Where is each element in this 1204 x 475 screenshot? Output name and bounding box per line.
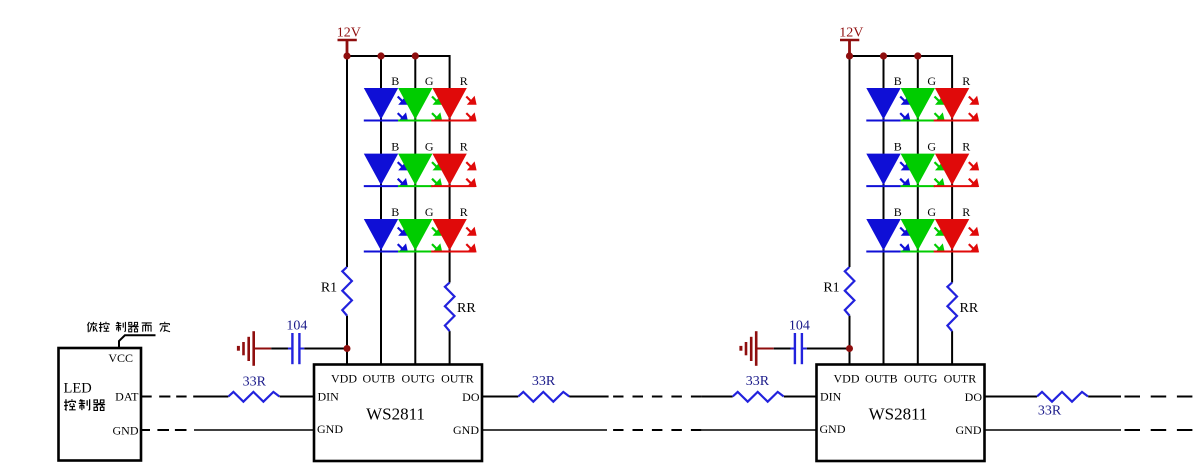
- resistor 33R (controller-U1): [228, 392, 279, 402]
- wire: R column block1 (with bend from rail): [449, 55, 451, 365]
- wire: GND solid to U2: [701, 429, 816, 431]
- svg-text:RR: RR: [960, 301, 979, 316]
- svg-text:R: R: [962, 74, 970, 88]
- svg-text:DIN: DIN: [820, 390, 842, 404]
- svg-text:R: R: [962, 139, 970, 153]
- wire: DAT dash 2: [176, 396, 186, 398]
- svg-text:VDD: VDD: [331, 371, 357, 385]
- wire: DAT solid to resistor: [193, 396, 228, 398]
- junction dot G rail block2: [914, 52, 921, 59]
- LED D16 blue row3 block2: [866, 219, 910, 252]
- resistor 33R (U1-U2): [518, 392, 569, 402]
- svg-text:OUTB: OUTB: [865, 371, 898, 385]
- svg-text:OUTB: OUTB: [362, 371, 395, 385]
- LED D18 red row3 block2: [934, 219, 979, 252]
- ground symbol block2: [741, 331, 756, 366]
- wire: B column block1: [380, 56, 382, 365]
- svg-text:GND: GND: [317, 422, 343, 436]
- svg-text:VCC: VCC: [108, 351, 133, 365]
- svg-text:OUTG: OUTG: [402, 371, 436, 385]
- wire: DAT dashes U1-U2: [613, 396, 701, 398]
- svg-text:G: G: [927, 205, 936, 219]
- wire: controller GND stub solid: [141, 429, 151, 431]
- wire: R column block2 (with bend from rail): [951, 55, 953, 365]
- svg-text:OUTR: OUTR: [441, 371, 474, 385]
- wire: VDD column block2: [849, 56, 851, 365]
- svg-text:G: G: [425, 139, 434, 153]
- svg-text:GND: GND: [113, 423, 139, 437]
- wire: GND U2 solid right: [985, 429, 1122, 431]
- svg-text:G: G: [927, 139, 936, 153]
- controller box: [59, 348, 142, 461]
- LED D1 blue row1 block1: [364, 88, 408, 121]
- resistor R1 block2: [845, 267, 855, 316]
- LED D12 red row1 block2: [934, 88, 979, 121]
- wire: G column block1: [414, 56, 416, 365]
- LED D10 blue row1 block2: [866, 88, 910, 121]
- wire: capacitor to VDD junction block1: [304, 348, 347, 350]
- wire: solid to 33R before U2: [701, 396, 732, 398]
- wire: 12V rail block1: [347, 55, 450, 57]
- wire: DO U1 to resistor: [482, 396, 518, 398]
- wire: to capacitor left (black) block2: [774, 348, 791, 350]
- wire: DAT dashes right end: [1125, 396, 1193, 398]
- svg-text:33R: 33R: [746, 374, 770, 389]
- capacitor C1 104 block1: [288, 333, 304, 364]
- svg-text:B: B: [391, 74, 399, 88]
- LED D9 red row3 block1: [431, 219, 476, 252]
- svg-text:G: G: [425, 74, 434, 88]
- LED D14 green row2 block2: [901, 154, 945, 187]
- LED D7 blue row3 block1: [364, 219, 408, 252]
- wire: resistor to dashes right: [1088, 396, 1121, 398]
- wire: controller GND solid to U1: [194, 429, 314, 431]
- LED D15 red row2 block2: [934, 154, 979, 187]
- LED D11 green row1 block2: [901, 88, 945, 121]
- svg-text:R: R: [962, 205, 970, 219]
- junction dot B rail block1: [377, 52, 384, 59]
- LED D6 red row2 block1: [431, 154, 476, 187]
- LED D17 green row3 block2: [901, 219, 945, 252]
- ground symbol block1: [238, 331, 253, 366]
- resistor 33R (before U2 DIN): [733, 392, 784, 402]
- junction dot B rail block2: [880, 52, 887, 59]
- wire: B column block2: [883, 56, 885, 365]
- wire: VDD column block1: [346, 56, 348, 365]
- wire: DAT dash 1: [159, 396, 170, 398]
- note leader line 依控制器而定: [119, 335, 156, 348]
- LED D5 green row2 block1: [398, 154, 442, 187]
- resistor RR block2: [947, 283, 957, 332]
- wire: DAT stub solid: [141, 396, 152, 398]
- svg-text:104: 104: [286, 319, 307, 334]
- wire: 12V rail block2: [850, 55, 953, 57]
- svg-text:B: B: [391, 139, 399, 153]
- resistor RR block1: [445, 283, 455, 332]
- svg-text:G: G: [927, 74, 936, 88]
- svg-text:B: B: [894, 74, 902, 88]
- power 12V supply block2: [839, 26, 863, 56]
- svg-text:GND: GND: [820, 422, 846, 436]
- svg-text:B: B: [391, 205, 399, 219]
- wire: resistor to DIN U1: [280, 396, 314, 398]
- svg-text:DIN: DIN: [318, 390, 340, 404]
- junction dot 12V block1: [343, 52, 350, 59]
- svg-text:R1: R1: [321, 280, 337, 295]
- svg-text:33R: 33R: [243, 375, 267, 390]
- junction dot VDD/cap block2: [846, 345, 853, 352]
- LED D13 blue row2 block2: [866, 154, 910, 187]
- resistor R1 block1: [342, 267, 352, 316]
- svg-text:WS2811: WS2811: [869, 405, 928, 424]
- note text 依控制器而定 (drawn glyphs): [87, 322, 170, 332]
- junction dot G rail block1: [412, 52, 419, 59]
- svg-text:GND: GND: [453, 423, 479, 437]
- wire: resistor to DIN U2: [784, 396, 817, 398]
- LED D2 green row1 block1: [398, 88, 442, 121]
- LED D4 blue row2 block1: [364, 154, 408, 187]
- wire: G column block2: [917, 56, 919, 365]
- wire: controller GND dash 1: [157, 429, 169, 431]
- svg-text:OUTG: OUTG: [904, 371, 938, 385]
- junction dot VDD/cap block1: [344, 345, 351, 352]
- svg-text:VDD: VDD: [834, 371, 860, 385]
- svg-text:33R: 33R: [532, 374, 556, 389]
- svg-text:LED: LED: [64, 381, 92, 397]
- svg-text:WS2811: WS2811: [366, 405, 425, 424]
- svg-text:R: R: [460, 205, 468, 219]
- svg-text:B: B: [894, 139, 902, 153]
- wire: ground to capacitor (dark red) block1: [254, 348, 272, 350]
- svg-text:R: R: [460, 139, 468, 153]
- svg-text:DO: DO: [462, 390, 480, 404]
- svg-text:GND: GND: [956, 423, 982, 437]
- resistor 33R (after U2 DO): [1037, 392, 1088, 402]
- svg-text:B: B: [894, 205, 902, 219]
- svg-text:104: 104: [789, 319, 810, 334]
- svg-text:DO: DO: [965, 390, 983, 404]
- svg-text:33R: 33R: [1038, 403, 1062, 418]
- svg-text:RR: RR: [457, 301, 476, 316]
- wire: ground to capacitor (dark red) block2: [756, 348, 774, 350]
- LED D3 red row1 block1: [431, 88, 476, 121]
- power 12V supply block1: [337, 26, 361, 56]
- svg-text:G: G: [425, 205, 434, 219]
- capacitor C2 104 block2: [790, 333, 806, 364]
- junction dot 12V block2: [846, 52, 853, 59]
- label 控制器 (drawn glyphs): [64, 399, 105, 410]
- wire: capacitor to VDD junction block2: [807, 348, 850, 350]
- wire: GND dashes U1-U2: [613, 429, 701, 431]
- wire: GND U1 to dashes: [482, 429, 607, 431]
- svg-text:R: R: [460, 74, 468, 88]
- svg-text:DAT: DAT: [115, 389, 139, 403]
- wire: controller GND dash 2: [175, 429, 187, 431]
- IC U2 WS2811 box: [817, 365, 985, 462]
- svg-text:R1: R1: [823, 280, 839, 295]
- LED D8 green row3 block1: [398, 219, 442, 252]
- wire: DO U2 to resistor: [985, 396, 1038, 398]
- wire: GND dashes right end: [1125, 429, 1193, 431]
- IC U1 WS2811 box: [314, 365, 482, 462]
- wire: to capacitor left (black) block1: [271, 348, 288, 350]
- wire: resistor to dashes: [569, 396, 608, 398]
- svg-text:OUTR: OUTR: [944, 371, 977, 385]
